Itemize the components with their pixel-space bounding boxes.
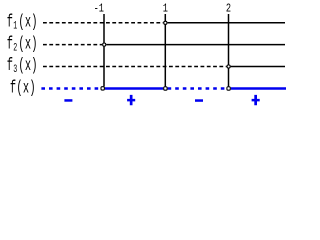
svg-text:f1(x): f1(x) bbox=[7, 13, 38, 32]
f blue dashed segment interval 3 bbox=[168, 87, 227, 90]
sign minus interval 3 bbox=[195, 99, 203, 102]
svg-text:f3(x): f3(x) bbox=[7, 57, 38, 76]
label f3(x) bbox=[7, 57, 38, 76]
open circle f1 at x=1 bbox=[164, 21, 167, 24]
sign plus interval 4 bbox=[252, 95, 260, 105]
axis label -1 bbox=[94, 2, 104, 16]
f blue solid segment interval 4 bbox=[231, 87, 286, 90]
open circle f at x=-1 bbox=[101, 87, 104, 90]
f3 dashed segment (negative region) bbox=[43, 66, 227, 68]
axis label 1 bbox=[163, 2, 168, 16]
svg-text:-1: -1 bbox=[94, 2, 104, 16]
f1 solid segment (positive region) bbox=[167, 22, 285, 24]
f blue dashed segment interval 1 bbox=[41, 87, 100, 90]
f1 dashed segment (negative region) bbox=[43, 22, 163, 24]
sign plus interval 2 bbox=[127, 95, 135, 105]
open circle f at x=2 bbox=[227, 87, 230, 90]
vertical line at x=-1 bbox=[103, 14, 105, 86]
f2 dashed segment (negative region) bbox=[43, 44, 102, 46]
f blue solid segment interval 2 bbox=[105, 87, 163, 90]
label f1(x) bbox=[7, 13, 38, 32]
svg-text:f(x): f(x) bbox=[10, 79, 36, 98]
open circle f2 at x=-1 bbox=[103, 43, 106, 46]
vertical line at x=2 bbox=[228, 14, 230, 86]
label f2(x) bbox=[7, 35, 38, 54]
open circle f3 at x=2 bbox=[227, 65, 230, 68]
f2 solid segment (positive region) bbox=[106, 44, 285, 46]
label f(x) bbox=[10, 79, 36, 98]
open circle f at x=1 bbox=[164, 87, 167, 90]
vertical line at x=1 bbox=[164, 14, 166, 86]
axis label 2 bbox=[226, 2, 231, 16]
sign minus interval 1 bbox=[64, 99, 72, 102]
f3 solid segment (positive region) bbox=[231, 66, 285, 68]
svg-text:f2(x): f2(x) bbox=[7, 35, 38, 54]
